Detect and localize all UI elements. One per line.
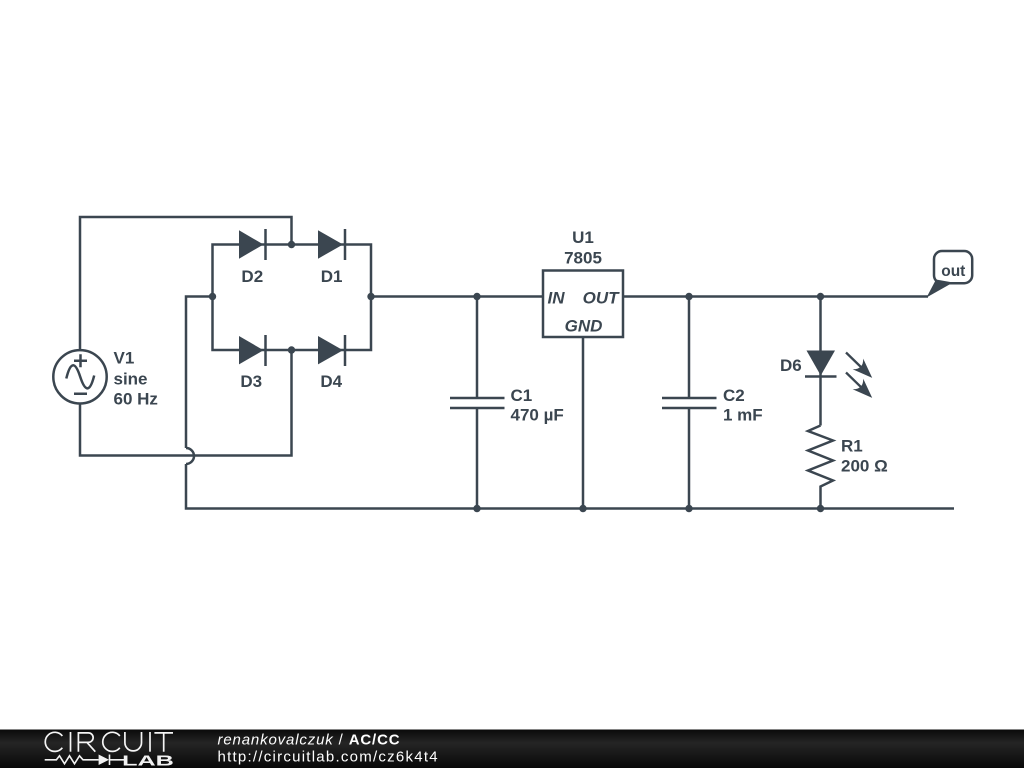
svg-text:470 µF: 470 µF: [511, 406, 564, 425]
svg-text:R1: R1: [841, 437, 863, 456]
svg-text:LAB: LAB: [122, 752, 174, 768]
svg-text:IN: IN: [548, 289, 566, 308]
svg-text:D2: D2: [241, 267, 263, 286]
svg-text:out: out: [941, 263, 965, 280]
svg-text:U1: U1: [572, 228, 594, 247]
svg-text:D1: D1: [321, 267, 343, 286]
svg-text:D6: D6: [780, 356, 802, 375]
svg-text:http://circuitlab.com/cz6k4t4: http://circuitlab.com/cz6k4t4: [218, 749, 439, 766]
svg-text:V1: V1: [114, 349, 135, 368]
svg-text:sine: sine: [114, 369, 148, 388]
svg-text:60 Hz: 60 Hz: [114, 389, 158, 408]
svg-text:renankovalczuk / AC/CC: renankovalczuk / AC/CC: [218, 731, 401, 748]
svg-text:200 Ω: 200 Ω: [841, 457, 888, 476]
svg-text:1 mF: 1 mF: [723, 406, 763, 425]
svg-text:7805: 7805: [564, 249, 602, 268]
svg-text:D4: D4: [320, 372, 342, 391]
svg-text:GND: GND: [565, 317, 603, 336]
svg-text:C1: C1: [511, 386, 533, 405]
svg-text:C2: C2: [723, 386, 745, 405]
svg-text:OUT: OUT: [583, 289, 621, 308]
svg-text:D3: D3: [240, 372, 262, 391]
